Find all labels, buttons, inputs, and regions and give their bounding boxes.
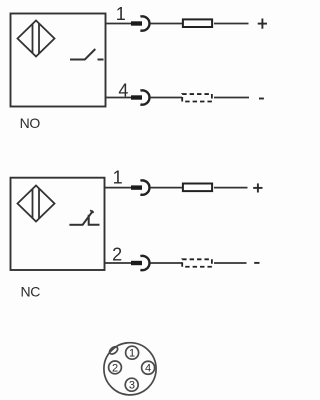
svg-text:NC: NC xyxy=(21,284,41,300)
svg-text:4: 4 xyxy=(118,80,128,100)
svg-text:4: 4 xyxy=(145,363,151,375)
svg-text:2: 2 xyxy=(112,244,122,264)
svg-text:1: 1 xyxy=(113,167,123,187)
svg-text:NO: NO xyxy=(20,115,41,131)
svg-text:3: 3 xyxy=(129,380,135,392)
svg-text:2: 2 xyxy=(112,362,118,374)
svg-text:1: 1 xyxy=(129,348,135,360)
svg-text:1: 1 xyxy=(116,4,126,24)
